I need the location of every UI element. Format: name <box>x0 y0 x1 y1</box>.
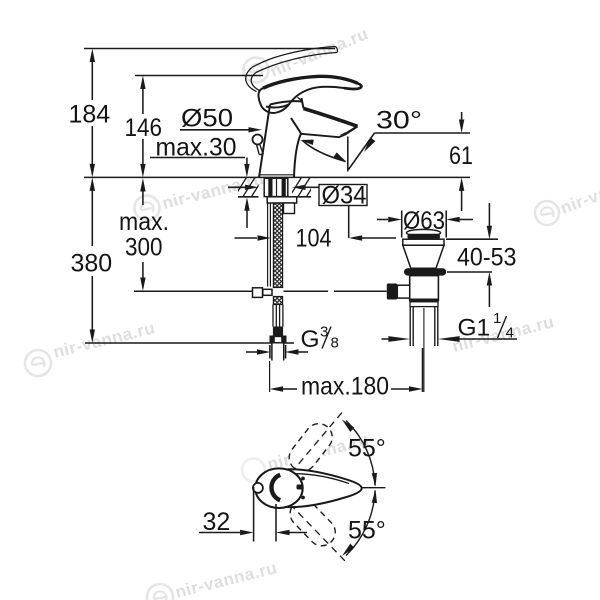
svg-text:max.180: max.180 <box>301 373 389 401</box>
svg-text:max.: max. <box>119 208 169 236</box>
svg-text:184: 184 <box>69 101 111 129</box>
svg-text:32: 32 <box>203 508 231 536</box>
svg-text:8: 8 <box>331 335 339 352</box>
svg-text:61: 61 <box>449 142 473 170</box>
svg-text:Ø50: Ø50 <box>181 105 233 133</box>
svg-text:G: G <box>301 326 320 353</box>
svg-text:40-53: 40-53 <box>457 244 517 272</box>
svg-text:300: 300 <box>125 234 163 262</box>
svg-text:3: 3 <box>320 324 328 341</box>
svg-text:Ø34: Ø34 <box>322 182 367 210</box>
svg-text:55°: 55° <box>348 517 386 545</box>
svg-text:G1: G1 <box>458 315 491 342</box>
svg-text:4: 4 <box>506 325 514 342</box>
svg-text:1: 1 <box>493 310 501 327</box>
svg-text:Ø63: Ø63 <box>403 207 445 235</box>
svg-text:380: 380 <box>71 250 113 278</box>
svg-text:55°: 55° <box>348 435 386 463</box>
svg-text:max.30: max.30 <box>156 134 237 162</box>
svg-text:30°: 30° <box>376 107 422 135</box>
svg-text:104: 104 <box>296 225 332 253</box>
